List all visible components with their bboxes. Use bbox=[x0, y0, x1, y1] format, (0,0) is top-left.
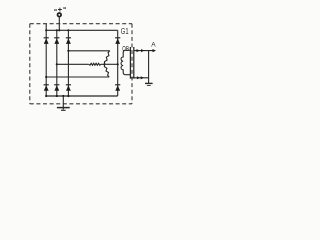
wire bottom contact bbox=[130, 77, 148, 79]
diode VD7 bottom bbox=[66, 85, 71, 91]
diode VD4 field top bbox=[115, 38, 120, 44]
svg-text:A: A bbox=[151, 42, 156, 49]
diode VD3 top bbox=[66, 38, 71, 44]
winding L1 zigzag diagonal bbox=[104, 64, 109, 77]
connector slip-ring bar right bbox=[133, 47, 135, 79]
wire field bottom bbox=[125, 74, 131, 76]
field winding coil OB bbox=[121, 50, 125, 74]
svg-text:G1: G1 bbox=[121, 26, 129, 36]
wire phase 1 tap bbox=[46, 76, 109, 78]
ground chassis symbol bottom bbox=[57, 107, 70, 109]
wire column 3 bbox=[67, 30, 69, 96]
ground chassis symbol right bbox=[145, 82, 153, 84]
node neutral junction bbox=[117, 63, 119, 65]
wire L2 to star center bbox=[101, 63, 105, 65]
diode VD5 bottom bbox=[44, 85, 49, 91]
wire top bus + bbox=[46, 29, 118, 31]
connector slip-ring bar left bbox=[129, 47, 131, 79]
node star center bbox=[103, 63, 105, 65]
node bus junctions bbox=[45, 29, 69, 31]
wire column 2 bbox=[56, 30, 58, 96]
diode VD6 bottom bbox=[54, 85, 59, 91]
wire bottom bus bbox=[46, 95, 118, 97]
label "+" terminal text bbox=[55, 7, 66, 11]
node phase3 tap bbox=[67, 50, 69, 52]
node bottom bus junctions bbox=[45, 95, 69, 97]
node phase2 tap bbox=[56, 63, 58, 65]
wire field top bbox=[125, 49, 131, 51]
diode VD2 top bbox=[54, 38, 59, 44]
diode VD1 top bbox=[44, 38, 49, 44]
wire column 4 bbox=[117, 30, 119, 96]
wire neutral to column4 bbox=[105, 63, 118, 65]
wire ground stub bbox=[62, 96, 64, 110]
generator G1 dashed enclosure bbox=[30, 24, 132, 104]
winding L3 zigzag diagonal bbox=[105, 51, 110, 65]
arrowheads top contact bbox=[137, 49, 157, 52]
arrowheads bottom contact bbox=[137, 76, 144, 79]
terminal B+ circle bbox=[58, 13, 62, 17]
diode VD8 field bottom bbox=[115, 85, 120, 91]
wire terminal to bus bbox=[58, 17, 60, 30]
winding L2 zigzag horizontal bbox=[89, 63, 101, 65]
wire connector stem down bbox=[148, 51, 150, 84]
wire phase 2 tap bbox=[57, 63, 89, 65]
wire phase 3 tap bbox=[68, 50, 109, 52]
wire column 1 bbox=[45, 30, 47, 96]
node phase1 tap bbox=[45, 76, 47, 78]
wire top contact to A bbox=[134, 50, 154, 52]
wire stub column1 to box edge bbox=[45, 24, 47, 31]
